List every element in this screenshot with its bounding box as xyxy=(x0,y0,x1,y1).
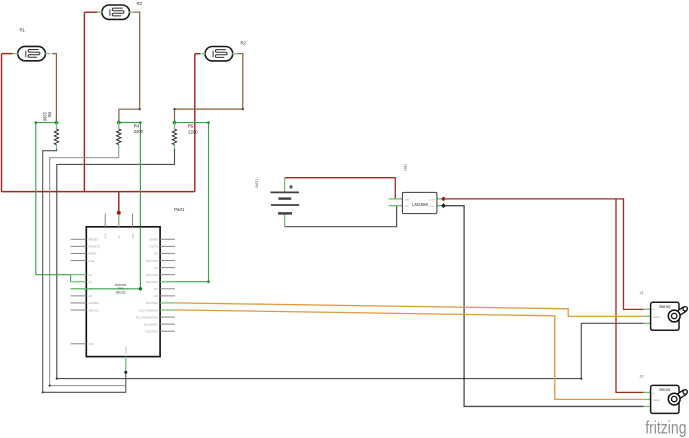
svg-text:A5/SCL: A5/SCL xyxy=(89,308,100,312)
svg-text:ioref: ioref xyxy=(89,259,95,263)
svg-text:Part1: Part1 xyxy=(174,207,185,212)
svg-text:+: + xyxy=(653,308,655,312)
svg-text:+: + xyxy=(289,183,294,192)
svg-text:R4: R4 xyxy=(134,123,140,128)
svg-text:D5 PWM: D5 PWM xyxy=(146,273,159,277)
svg-text:+VOUT: +VOUT xyxy=(428,199,436,201)
svg-text:RESET2: RESET2 xyxy=(89,245,101,249)
svg-text:+VIN: +VIN xyxy=(404,199,409,201)
svg-text:A0: A0 xyxy=(89,273,93,277)
svg-text:RESET: RESET xyxy=(89,238,99,242)
svg-text:fritzing: fritzing xyxy=(645,418,686,438)
svg-text:-VOUT: -VOUT xyxy=(429,206,436,208)
svg-text:D4: D4 xyxy=(154,266,158,270)
svg-text:2200: 2200 xyxy=(188,129,198,134)
svg-text:D1/TX: D1/TX xyxy=(149,245,158,249)
svg-text:A4/SDA: A4/SDA xyxy=(89,301,100,305)
svg-text:J2: J2 xyxy=(640,374,644,378)
svg-text:N/C: N/C xyxy=(89,342,95,346)
svg-text:BAT1: BAT1 xyxy=(255,178,259,187)
svg-text:D10 PWM/SS: D10 PWM/SS xyxy=(139,308,158,312)
svg-text:Servo: Servo xyxy=(659,304,671,309)
svg-text:GND: GND xyxy=(124,346,128,354)
svg-text:J1: J1 xyxy=(640,291,644,295)
svg-text:A1: A1 xyxy=(89,280,93,284)
svg-text:2200: 2200 xyxy=(134,129,144,134)
svg-text:-: - xyxy=(653,405,654,409)
svg-text:-: - xyxy=(653,322,654,326)
svg-text:R5: R5 xyxy=(188,124,194,129)
svg-text:R1: R1 xyxy=(20,28,26,33)
svg-text:3V3: 3V3 xyxy=(104,233,108,239)
svg-text:5V: 5V xyxy=(117,235,121,239)
svg-text:D6 PWM: D6 PWM xyxy=(146,280,159,284)
svg-text:D2: D2 xyxy=(154,252,158,256)
svg-text:pulse: pulse xyxy=(653,315,661,319)
svg-text:VIN: VIN xyxy=(131,233,135,238)
svg-text:-VIN: -VIN xyxy=(404,206,409,208)
svg-text:Servo: Servo xyxy=(659,387,671,392)
svg-text:LM1: LM1 xyxy=(403,164,407,171)
svg-text:LM2596: LM2596 xyxy=(412,202,428,207)
svg-text:D3 PWM: D3 PWM xyxy=(146,259,159,263)
svg-text:A2: A2 xyxy=(89,287,93,291)
svg-text:(Rev3): (Rev3) xyxy=(116,290,126,294)
svg-text:D12/MISO: D12/MISO xyxy=(144,322,159,326)
svg-text:R3: R3 xyxy=(137,1,143,6)
svg-text:D7: D7 xyxy=(154,287,158,291)
svg-text:A3: A3 xyxy=(89,294,93,298)
svg-text:AREF: AREF xyxy=(89,252,97,256)
svg-text:D0/RX: D0/RX xyxy=(149,238,158,242)
svg-text:R2: R2 xyxy=(241,41,247,46)
svg-text:D13/SCK: D13/SCK xyxy=(145,330,158,334)
svg-text:D11 PWM/MOSI: D11 PWM/MOSI xyxy=(136,315,158,319)
svg-text:D8: D8 xyxy=(154,294,158,298)
svg-text:pulse: pulse xyxy=(653,398,661,402)
svg-text:D9 PWM: D9 PWM xyxy=(146,301,159,305)
svg-text:+: + xyxy=(653,391,655,395)
